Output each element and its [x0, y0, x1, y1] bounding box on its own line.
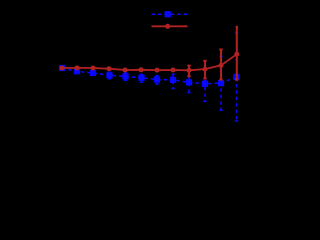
- red errorbar P9: [187, 66, 190, 77]
- blue errorbar P8: [171, 74, 174, 88]
- red errorbar P11: [219, 50, 222, 80]
- blue series error bars (dashed verticals with caps): [108, 33, 238, 121]
- blue errorbar P10: [203, 81, 206, 102]
- blue errorbar P12: [235, 33, 238, 121]
- blue errorbar P4: [108, 72, 111, 79]
- red errorbar P12: [235, 27, 238, 80]
- blue errorbar P7: [155, 76, 158, 85]
- red solid polyline: [62, 54, 237, 70]
- blue errorbar P9: [187, 76, 190, 92]
- red circle markers: [60, 52, 240, 73]
- blue errorbar P11: [219, 56, 222, 110]
- blue square markers: [59, 65, 240, 87]
- red series error bars (solid verticals with caps): [187, 27, 238, 80]
- blue errorbar P6: [140, 75, 143, 83]
- blue errorbar P5: [124, 73, 127, 80]
- red errorbar P10: [203, 61, 206, 79]
- legend blue entry: [152, 11, 188, 17]
- blue dashed polyline: [62, 68, 237, 84]
- legend red entry: [152, 24, 188, 29]
